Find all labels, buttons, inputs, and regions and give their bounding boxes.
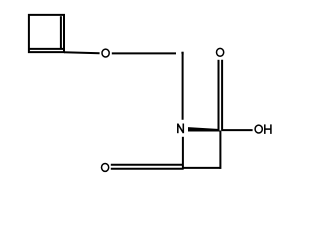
double bond inner line (right edge of ring) (60, 16, 62, 49)
flare at top of CH2-N wire (181, 52, 183, 55)
hydroxyl H of OH (265, 124, 271, 133)
wire CH2 down to N (182, 52, 184, 120)
azetidinone ring right edge (C2 to C3) (219, 131, 221, 169)
carbonyl C2=O double bond right line (221, 60, 223, 131)
atom O (ether) (102, 49, 109, 57)
hydroxyl O of OH (255, 125, 262, 133)
azetidinone ring left edge (N to C4) (182, 137, 184, 170)
atom O (top carbonyl) (217, 48, 224, 56)
wire ring to ether O (64, 52, 100, 53)
bond C2 to OH (222, 129, 253, 131)
carbonyl C4=O upper line (111, 164, 184, 166)
cyclobutadiene ring (29, 15, 64, 52)
double bond inner line (bottom edge of ring) (29, 48, 64, 50)
atom N (ring nitrogen) (178, 124, 184, 134)
carbonyl C4=O lower line (111, 168, 184, 170)
carbonyl C2=O double bond left line (218, 60, 220, 131)
wire ether O to CH2 (112, 52, 176, 54)
wedge bond N to C2 (188, 127, 220, 131)
azetidinone ring bottom edge (C4 to C3) (183, 167, 221, 169)
atom O (left carbonyl) (102, 163, 109, 171)
